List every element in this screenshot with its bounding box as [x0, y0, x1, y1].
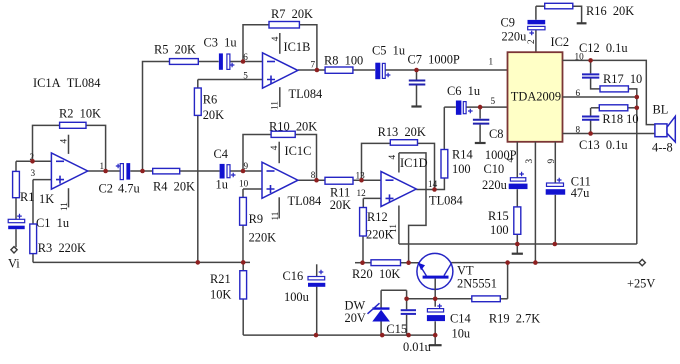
node dot R12/R20 — [360, 260, 365, 265]
svg-text:R5 20K: R5 20K — [154, 42, 196, 56]
svg-text:12: 12 — [357, 188, 367, 198]
svg-text:7: 7 — [311, 59, 316, 69]
svg-text:C6 1u: C6 1u — [447, 84, 480, 98]
resistor R17 — [600, 86, 628, 92]
svg-text:100: 100 — [490, 223, 509, 237]
pin 4 stub IC1B — [279, 33, 281, 54]
svg-text:R4 20K: R4 20K — [153, 180, 195, 194]
node dot C11 gnd rail — [553, 242, 558, 247]
svg-text:IC1D: IC1D — [400, 156, 428, 170]
node dot pin2 — [30, 159, 35, 164]
wire — [399, 142, 637, 263]
svg-text:R13 20K: R13 20K — [378, 125, 426, 139]
svg-text:R6: R6 — [203, 93, 217, 107]
svg-text:1K: 1K — [39, 192, 54, 206]
svg-text:+25V: +25V — [627, 277, 655, 291]
wire — [362, 107, 445, 263]
svg-text:C4: C4 — [214, 147, 228, 161]
pin 4 stub IC1C — [278, 142, 280, 164]
node dot C14 bottom — [433, 333, 438, 338]
capacitor C3 — [219, 53, 235, 69]
svg-text:R8 100: R8 100 — [324, 53, 363, 67]
svg-text:2: 2 — [526, 39, 536, 44]
wire — [198, 25, 508, 263]
svg-text:R17 10: R17 10 — [603, 72, 642, 86]
capacitor C16 — [308, 270, 325, 287]
node dot pin9 — [241, 169, 246, 174]
node dot DW bottom — [380, 333, 385, 338]
resistor R16 — [545, 3, 573, 9]
svg-text:1u: 1u — [216, 177, 228, 191]
op-amp IC1A — [51, 135, 87, 208]
svg-text:TL084: TL084 — [429, 193, 463, 207]
capacitor C7 — [409, 81, 426, 85]
resistor R10 — [271, 131, 295, 137]
svg-text:3: 3 — [524, 159, 534, 164]
ground C14 — [429, 344, 442, 346]
speaker BL — [655, 116, 675, 142]
pin 11 stub IC1A — [68, 188, 70, 207]
capacitor C11 — [546, 178, 566, 195]
svg-text:9: 9 — [546, 159, 556, 164]
node dot pin8 out — [314, 178, 319, 183]
svg-text:R12: R12 — [367, 210, 388, 224]
node dot emitter — [406, 260, 411, 265]
svg-text:C2: C2 — [99, 182, 113, 196]
svg-text:5: 5 — [243, 71, 248, 81]
op-amp IC1D — [381, 153, 416, 207]
svg-text:VT: VT — [457, 263, 474, 277]
node dot C7 — [414, 68, 419, 73]
svg-text:R10 20K: R10 20K — [269, 120, 317, 134]
svg-text:C16: C16 — [283, 269, 304, 283]
node dot C16 bottom — [314, 333, 319, 338]
svg-text:220K: 220K — [366, 227, 394, 241]
node dot C2 left — [103, 169, 108, 174]
capacitor C5 — [375, 63, 390, 79]
svg-text:100: 100 — [452, 162, 471, 176]
svg-text:R15: R15 — [488, 209, 509, 223]
svg-text:4: 4 — [270, 36, 280, 41]
svg-text:100u: 100u — [284, 290, 309, 304]
base bar — [423, 276, 449, 279]
node dot C15 top — [404, 297, 409, 302]
collector line — [444, 264, 451, 276]
svg-text:C13 0.1u: C13 0.1u — [579, 138, 628, 152]
resistor R5 — [170, 59, 199, 65]
svg-text:14: 14 — [428, 179, 438, 189]
svg-text:47u: 47u — [571, 186, 590, 200]
svg-text:IC1C: IC1C — [285, 144, 312, 158]
svg-text:6: 6 — [576, 88, 581, 98]
svg-text:R7 20K: R7 20K — [271, 7, 313, 21]
ground C7 — [411, 105, 421, 107]
pin 11 stub IC1B — [279, 87, 281, 107]
emitter line with arrow — [419, 264, 426, 276]
svg-text:R14: R14 — [452, 148, 473, 162]
svg-text:11: 11 — [59, 202, 69, 211]
resistor R2 — [60, 122, 86, 128]
resistor R3 — [30, 224, 37, 254]
wire — [16, 62, 250, 263]
svg-text:TL084: TL084 — [289, 87, 323, 101]
pin 11 stub IC1C — [278, 197, 280, 218]
node dot C13 bottom — [588, 131, 593, 136]
svg-text:R21: R21 — [210, 272, 231, 286]
svg-text:8: 8 — [576, 125, 581, 135]
svg-text:0.01u: 0.01u — [403, 340, 431, 354]
svg-text:R2 10K: R2 10K — [59, 107, 101, 121]
node dot C12 — [588, 58, 593, 63]
svg-text:IC2: IC2 — [551, 35, 570, 49]
svg-text:C14: C14 — [450, 311, 471, 325]
capacitor C12 — [582, 74, 599, 77]
node dot pin6 — [241, 59, 246, 64]
svg-text:C10: C10 — [484, 162, 505, 176]
capacitor C8 — [473, 120, 489, 124]
svg-text:C7 1000P: C7 1000P — [408, 52, 460, 66]
resistor R21 — [240, 271, 247, 299]
node dot bus R21 — [241, 260, 246, 265]
svg-text:4.7u: 4.7u — [118, 182, 140, 196]
capacitor C1 — [8, 214, 25, 230]
node dot pin7 — [315, 68, 320, 73]
node dot pin13 — [359, 178, 364, 183]
svg-text:10u: 10u — [452, 327, 471, 341]
resistor R12 — [360, 208, 367, 237]
resistor R15 — [514, 207, 521, 234]
op-amp IC1B — [263, 33, 298, 107]
capacitor C4 — [220, 164, 236, 179]
capacitor C15 — [401, 310, 416, 314]
svg-text:20K: 20K — [330, 198, 351, 212]
svg-text:10K: 10K — [379, 267, 400, 281]
resistor R18 — [599, 105, 628, 111]
svg-text:4: 4 — [387, 155, 397, 160]
resistor R1 — [13, 171, 20, 197]
svg-text:TL084: TL084 — [288, 194, 322, 208]
svg-text:R16 20K: R16 20K — [586, 4, 634, 18]
svg-text:220K: 220K — [249, 231, 277, 245]
terminal +25V — [639, 259, 645, 265]
svg-text:4: 4 — [59, 139, 69, 144]
pin 4 stub IC1D — [398, 153, 400, 173]
node dot IC1D out — [432, 187, 437, 192]
ground R15 — [512, 253, 523, 255]
node dot pin6 net — [635, 95, 640, 100]
svg-text:10: 10 — [239, 178, 249, 188]
capacitor C14 — [427, 304, 445, 321]
svg-text:4: 4 — [505, 158, 515, 163]
node dot C6/C8 — [478, 105, 483, 110]
node dot bus R6 — [196, 260, 201, 265]
svg-text:220u: 220u — [502, 30, 527, 44]
IC2 TDA2009 — [508, 52, 563, 142]
node dot R19/rail — [505, 260, 510, 265]
svg-text:BL: BL — [653, 102, 669, 116]
node dot base — [433, 297, 438, 302]
ground R16 — [577, 22, 587, 24]
resistor R9 — [240, 197, 247, 225]
resistor R19 — [472, 296, 501, 302]
resistor R6 — [194, 88, 201, 115]
svg-text:C5 1u: C5 1u — [372, 44, 405, 58]
svg-text:R20: R20 — [352, 267, 373, 281]
svg-text:10K: 10K — [210, 288, 231, 302]
resistor R20 — [371, 260, 401, 266]
resistor R7 — [269, 22, 299, 29]
svg-text:C12 0.1u: C12 0.1u — [579, 41, 628, 55]
resistor R8 — [325, 67, 353, 73]
wire — [444, 6, 581, 142]
svg-text:8: 8 — [311, 170, 316, 180]
svg-text:2N5551: 2N5551 — [457, 277, 497, 291]
svg-text:C9: C9 — [501, 16, 515, 30]
resistor R11 — [325, 177, 353, 184]
svg-text:R1: R1 — [20, 190, 34, 204]
svg-text:IC1A TL084: IC1A TL084 — [33, 76, 100, 90]
svg-text:C8: C8 — [489, 127, 503, 141]
svg-text:C15: C15 — [386, 322, 407, 336]
wire — [563, 60, 655, 244]
node dot pin3/rail — [533, 260, 538, 265]
node dot C15 bottom — [406, 333, 411, 338]
svg-text:4--8: 4--8 — [652, 140, 673, 154]
node dot R15 gnd rail — [515, 242, 520, 247]
ground C8 — [475, 142, 486, 144]
wire — [355, 263, 639, 299]
svg-text:220u: 220u — [482, 178, 507, 192]
wire — [243, 262, 435, 344]
svg-text:20K: 20K — [203, 108, 224, 122]
node dot R18 right — [635, 106, 640, 111]
capacitor C10 — [509, 172, 528, 189]
svg-text:R3 220K: R3 220K — [38, 241, 86, 255]
svg-text:Vi: Vi — [8, 257, 20, 271]
svg-text:R18 10: R18 10 — [602, 112, 638, 126]
terminal Vi — [11, 247, 17, 253]
op-amp IC1C — [262, 142, 298, 219]
capacitor C2 — [116, 163, 130, 180]
svg-text:1: 1 — [489, 57, 494, 67]
capacitor C9 — [528, 20, 546, 35]
resistor R13 — [390, 140, 417, 146]
svg-text:C1 1u: C1 1u — [36, 216, 69, 230]
transistor VT 2N5551 — [417, 253, 453, 306]
svg-text:3: 3 — [31, 168, 36, 178]
svg-text:4: 4 — [269, 145, 279, 150]
svg-text:5: 5 — [491, 96, 496, 106]
svg-text:11: 11 — [270, 101, 280, 110]
capacitor C13 — [582, 117, 599, 120]
resistor R14 — [441, 150, 448, 179]
svg-text:R19 2.7K: R19 2.7K — [489, 311, 540, 325]
wire — [230, 135, 381, 263]
svg-text:C3 1u: C3 1u — [204, 36, 237, 50]
svg-text:11: 11 — [270, 211, 280, 220]
svg-text:1: 1 — [100, 161, 105, 171]
base lead down — [434, 279, 436, 307]
resistor R4 — [153, 168, 180, 174]
svg-text:TDA2009: TDA2009 — [511, 89, 561, 103]
svg-text:20V: 20V — [345, 311, 366, 325]
svg-text:IC1B: IC1B — [284, 40, 311, 54]
zener DW — [368, 303, 390, 321]
capacitor C6 — [456, 101, 473, 115]
node dot C2 right — [140, 169, 145, 174]
pin 4 stub IC1A — [68, 135, 70, 154]
svg-text:R9: R9 — [249, 212, 263, 226]
